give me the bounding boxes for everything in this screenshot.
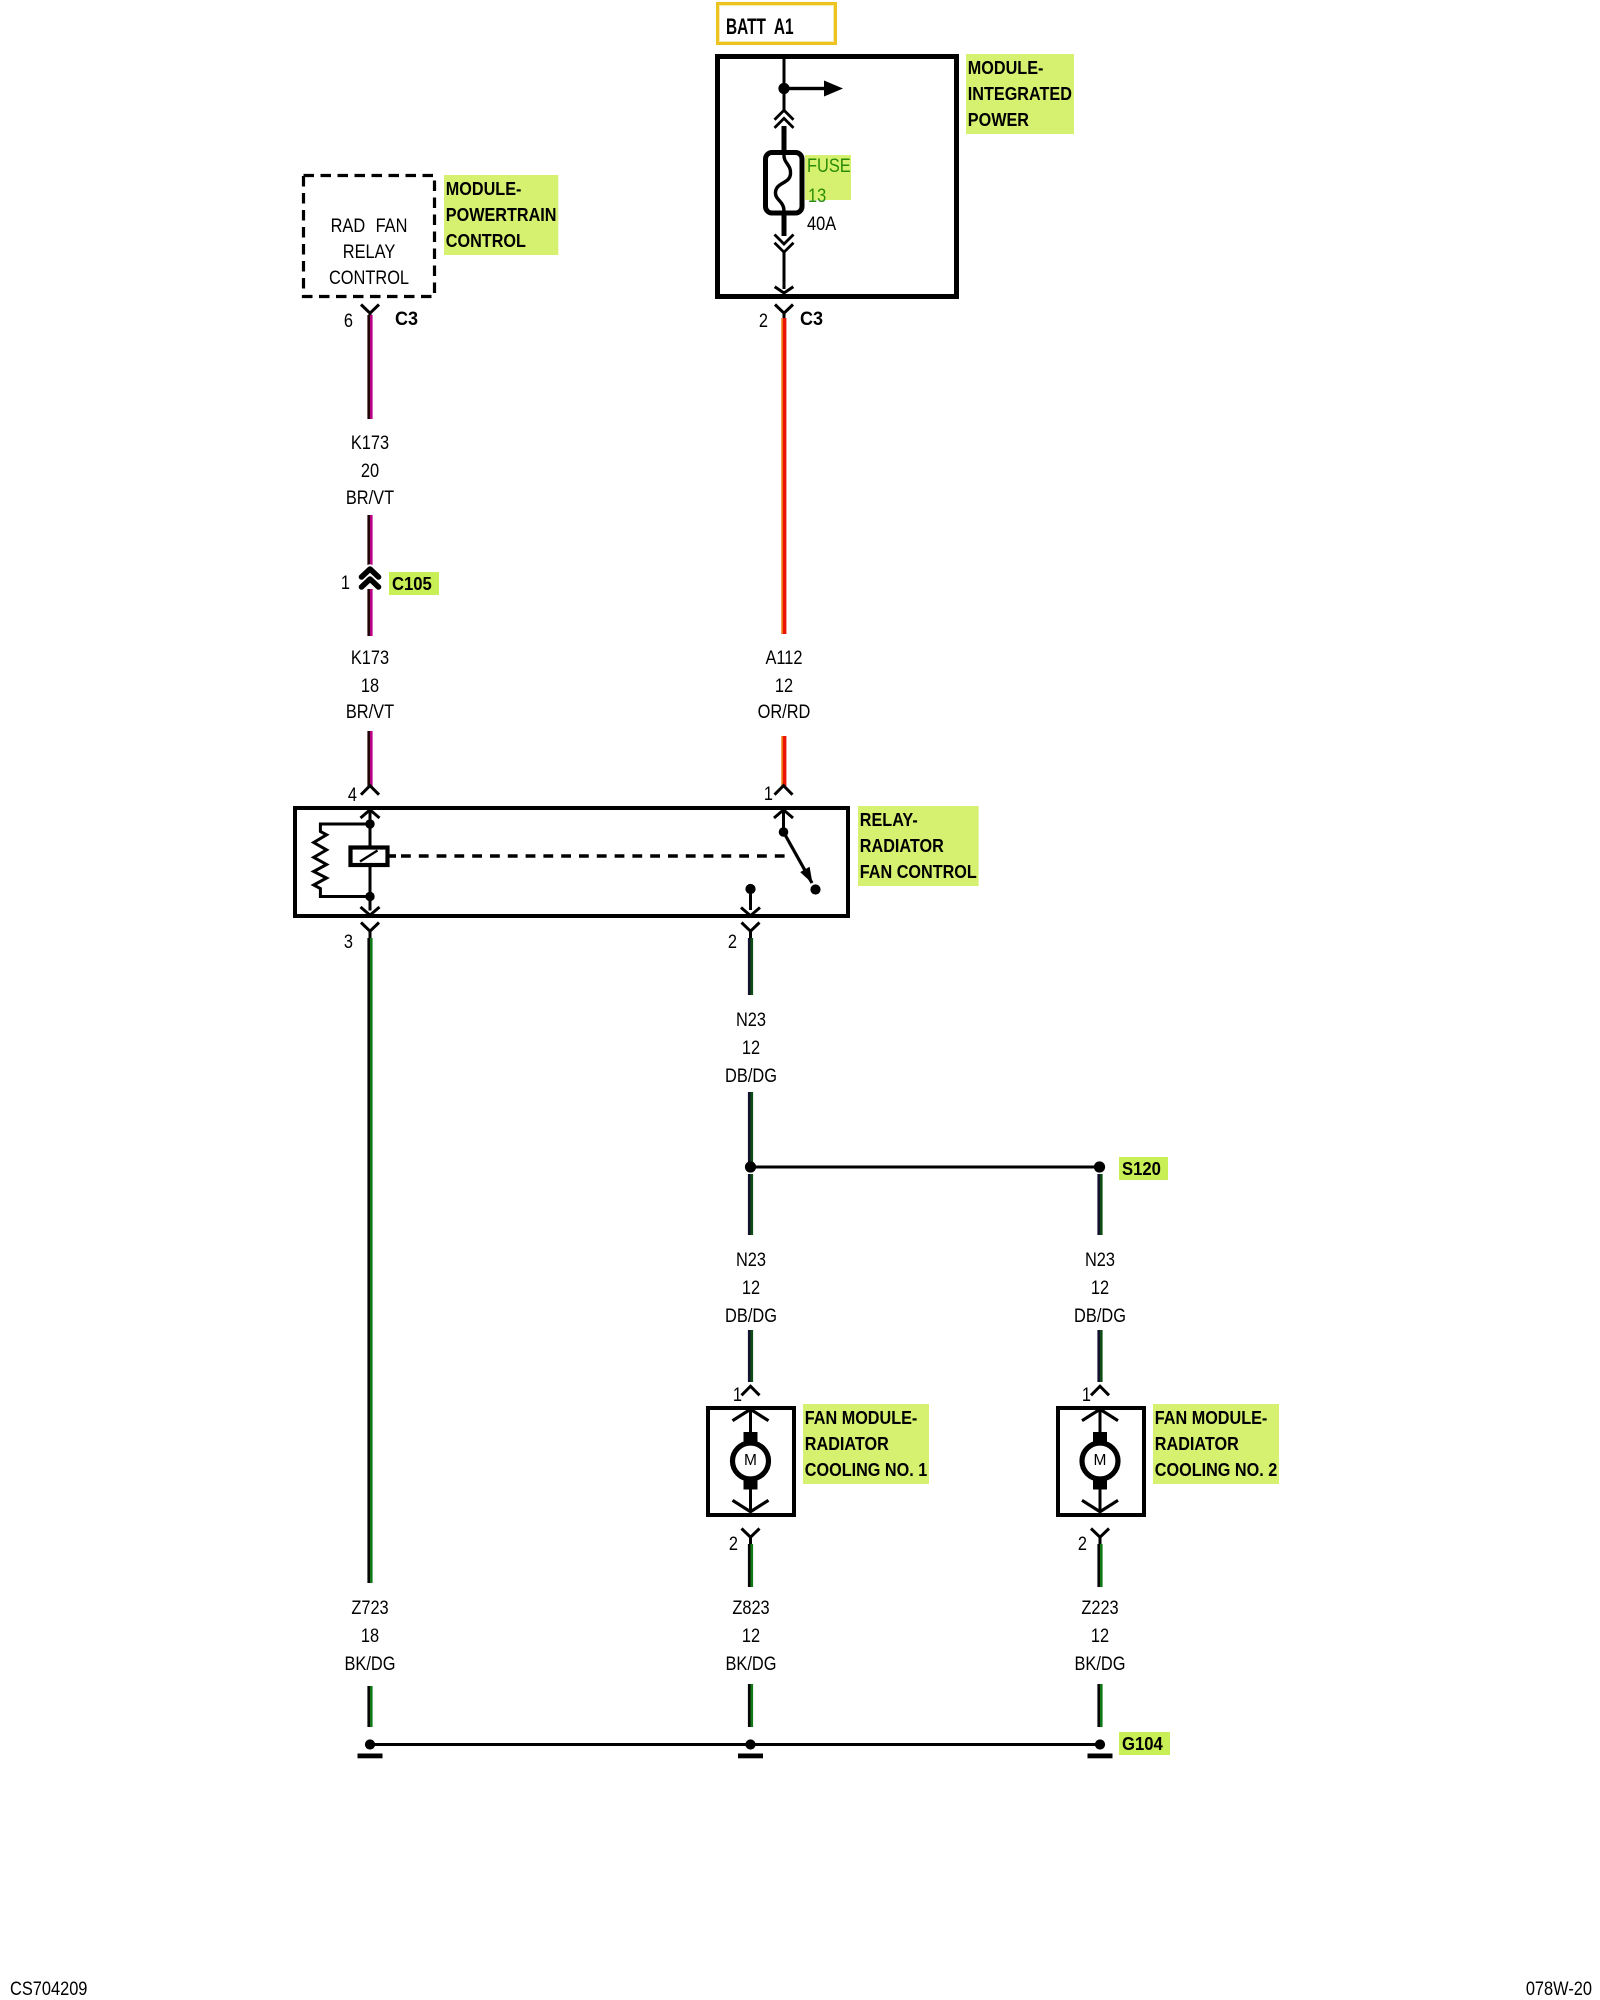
wire label Z223 12 BK/DG (1078, 1598, 1122, 1618)
wire N23 12 DB/DG: label to splice S120 (748, 1092, 753, 1162)
fan 1 pin 2 exit arrow inside box (733, 1500, 769, 1511)
motor M2: terminal top (1093, 1432, 1107, 1443)
relay pin 2 exit arrow inside box (741, 908, 760, 916)
wire label K173 20 BR/VT (347, 433, 393, 453)
wire N23 12 DB/DG: lower label to fan 2 pin 1 (1097, 1330, 1102, 1382)
wire K173 18 BR/VT: segment label to relay pin 4 (367, 731, 372, 786)
connector chevrons: in-module connector (double chevron up) (775, 110, 794, 128)
pin label 1 (fan 1) (731, 1385, 742, 1405)
pin connector Y: relay pin 3 (361, 923, 379, 941)
label MODULE-POWERTRAIN CONTROL (444, 175, 558, 255)
pin connector Y: fan 1 pin 2 (742, 1529, 760, 1547)
pin label 2 (fan 1) (727, 1534, 738, 1554)
node: junction dot inside power module (778, 83, 789, 94)
label MODULE-INTEGRATED POWER (966, 54, 1074, 134)
node: relay pin 2 contact dot (745, 884, 755, 894)
fan 1 pin 1 entry arrow inside box (733, 1409, 769, 1420)
pin label 1 (relay) (762, 784, 773, 804)
wire: fan 1 pin 1 to motor (749, 1409, 752, 1433)
wire: ground bus G104 (370, 1743, 1100, 1746)
pin label 2 (fan 2) (1076, 1534, 1087, 1554)
motor M2: armature circle (1082, 1443, 1118, 1479)
wire: chevrons to fuse (thick) (782, 126, 787, 154)
connector label C3 (power module) (800, 309, 824, 330)
wire: coil vertical through solenoid symbol (369, 824, 372, 897)
motor M1: terminal bottom (744, 1479, 758, 1490)
node: relay coil top junction (365, 819, 374, 828)
node BATT A1 (716, 2, 837, 45)
pin connector Y: module pin 2 / C3 (775, 305, 793, 319)
wire: relay pin 1 to switch pivot (782, 810, 785, 832)
wire K173 20 BR/VT: segment from C3 to label (367, 315, 372, 419)
wire A112 12 OR/RD: segment from C3 to label (781, 318, 786, 634)
dashed box: MODULE-POWERTRAIN CONTROL (304, 176, 435, 297)
connector chevrons: in-module connector (double chevron down) (775, 235, 794, 253)
wire Z723 18 BK/DG: long segment relay pin 3 to label (367, 938, 372, 1583)
motor M1 label (744, 1453, 757, 1469)
wire: fuse to lower chevrons (thick) (782, 211, 787, 236)
relay K1: RELAY-RADIATOR FAN CONTROL box (293, 806, 850, 918)
wire: arrow tap to other circuits (784, 81, 843, 97)
fuse F13 element (S-curve) (775, 155, 790, 211)
pin connector: wire end chevron above relay pin 4 (361, 786, 379, 795)
wire: to module pin 2 (783, 252, 786, 289)
connector label C3 (PCM) (395, 309, 419, 330)
wire K173 18 BR/VT: segment C105 to label (367, 589, 372, 636)
fan 2 pin 1 entry arrow inside box (1082, 1409, 1118, 1420)
fan module M2 box (1056, 1406, 1146, 1518)
relay solenoid box symbol (351, 848, 388, 866)
pin connector Y: fan 2 pin 2 (1091, 1529, 1109, 1547)
node: switch pivot (779, 827, 789, 837)
fuse F13 rating 40A (807, 214, 842, 234)
fan module M1 box (706, 1406, 796, 1518)
wire: splice S120 horizontal link (751, 1166, 1100, 1169)
wire: relay pin 4 to coil junction (369, 810, 372, 824)
wire label Z823 12 BK/DG (728, 1598, 772, 1618)
pin connector: wire end chevron above relay pin 1 (775, 786, 793, 795)
wire label Z723 18 BK/DG (348, 1598, 392, 1618)
relay actuation dashed link (388, 854, 789, 858)
pin connector: wire end chevron above fan 2 pin 1 (1091, 1386, 1109, 1395)
wire: motor to fan 1 pin 2 (749, 1489, 752, 1510)
wire Z823 12 BK/DG: fan 1 pin 2 to label (748, 1544, 753, 1587)
ground label G104 (1119, 1732, 1170, 1755)
footer sheet number CS704209 (10, 1979, 102, 1999)
ground: left ground terminal (358, 1739, 383, 1758)
motor M2: terminal bottom (1093, 1479, 1107, 1490)
motor M2 label (1094, 1453, 1107, 1469)
wire Z223 12 BK/DG: label to ground (1097, 1684, 1102, 1727)
pin label 2 (power module C3) (757, 311, 768, 331)
relay pin 4 entry arrow inside box (361, 810, 380, 818)
relay pin 1 entry arrow inside box (774, 810, 793, 818)
node: splice S120 left dot (745, 1161, 756, 1172)
module U1: MODULE-INTEGRATED POWER box (715, 54, 959, 299)
node: splice S120 right dot (1094, 1161, 1105, 1172)
label RELAY-RADIATOR FAN CONTROL (858, 806, 979, 886)
wire label K173 18 BR/VT (347, 648, 393, 668)
footer drawing number 078W-20 (1513, 1979, 1592, 1999)
wire N23 12 DB/DG: splice to lower label (right branch) (1097, 1174, 1102, 1235)
connector C105 (double filled chevron) (362, 569, 379, 587)
node: switch arm tip dot (810, 884, 820, 894)
wire N23 12 DB/DG: relay pin 2 to label (748, 938, 753, 995)
pin label 1 (C105) (339, 573, 350, 593)
wire Z723 18 BK/DG: segment label to ground (367, 1686, 372, 1727)
node: relay coil bottom junction (365, 892, 374, 901)
pin arrow: module exit arrow at box bottom edge (775, 287, 794, 293)
ground: middle ground terminal (738, 1739, 763, 1758)
pin label 4 (relay) (346, 785, 357, 805)
switch arm with arrowhead (784, 832, 813, 884)
ground: right ground terminal G104 (1088, 1739, 1113, 1758)
label FAN MODULE-RADIATOR COOLING NO. 2 (1153, 1404, 1279, 1484)
wire: motor to fan 2 pin 2 (1099, 1489, 1102, 1510)
resistor: relay coil (zigzag) with connecting bracket (314, 824, 370, 897)
wire: fan 2 pin 1 to motor (1099, 1409, 1102, 1433)
wire Z823 12 BK/DG: label to ground (748, 1684, 753, 1727)
pin label 6 (PCM C3) (342, 311, 353, 331)
pin connector Y: PCM pin 6 / C3 (361, 305, 379, 319)
wire: feed inside power module from box top (783, 59, 786, 112)
fuse F13 body (766, 153, 803, 214)
wire N23 12 DB/DG: splice to lower label (left branch) (748, 1174, 753, 1235)
pin label 3 (relay) (342, 932, 353, 952)
wire label N23 12 DB/DG (lower right) (1082, 1250, 1118, 1270)
label FAN MODULE-RADIATOR COOLING NO. 1 (803, 1404, 929, 1484)
pin label 1 (fan 2) (1080, 1385, 1091, 1405)
wire: contact to relay pin 2 (749, 889, 752, 910)
wire label A112 12 OR/RD (762, 648, 806, 668)
wire A112 12 OR/RD: segment from label to relay pin 1 (781, 736, 786, 786)
relay pin 3 exit arrow inside box (361, 907, 380, 915)
module PCM: dashed box RAD FAN RELAY CONTROL (internal circuitry shown dashed) (323, 216, 415, 236)
pin label 2 (relay) (726, 932, 737, 952)
wire label N23 12 DB/DG (lower left) (733, 1250, 769, 1270)
wire Z223 12 BK/DG: fan 2 pin 2 to label (1097, 1544, 1102, 1587)
wire K173 20 BR/VT: segment label to C105 (367, 515, 372, 572)
motor M1: terminal top (744, 1432, 758, 1443)
splice label S120 (1119, 1157, 1168, 1180)
fan 2 pin 2 exit arrow inside box (1082, 1500, 1118, 1511)
wire N23 12 DB/DG: lower label to fan 1 pin 1 (748, 1330, 753, 1382)
wire: coil bottom to relay pin 3 (369, 897, 372, 911)
wire label N23 12 DB/DG (upper) (733, 1010, 769, 1030)
connector label C105 (389, 572, 439, 595)
pin connector: wire end chevron above fan 1 pin 1 (742, 1386, 760, 1395)
fuse F13 label FUSE 13 (805, 155, 851, 200)
motor M1: armature circle (733, 1443, 769, 1479)
pin connector Y: relay pin 2 (742, 923, 760, 941)
